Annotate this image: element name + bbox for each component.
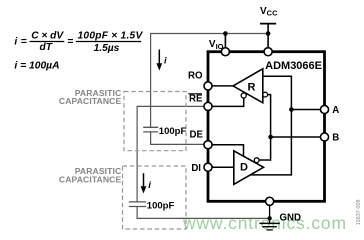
svg-text:VCC: VCC <box>260 6 278 18</box>
svg-text:C × dV: C × dV <box>31 30 64 41</box>
svg-text:RE: RE <box>189 94 203 105</box>
svg-text:100pF: 100pF <box>159 126 187 137</box>
svg-text:DI: DI <box>191 163 201 174</box>
svg-text:100pF: 100pF <box>147 201 175 212</box>
svg-text:D: D <box>240 162 248 174</box>
svg-text:CAPACITANCE: CAPACITANCE <box>59 174 122 184</box>
svg-text:B: B <box>332 133 339 144</box>
svg-text:i = 100µA: i = 100µA <box>14 61 59 72</box>
svg-text:100pF × 1.5V: 100pF × 1.5V <box>77 30 143 41</box>
svg-text:DE: DE <box>190 129 204 140</box>
svg-text:A: A <box>332 105 339 116</box>
svg-text:i: i <box>14 37 17 48</box>
svg-text:i: i <box>148 180 151 191</box>
svg-text:15637-008: 15637-008 <box>356 200 362 226</box>
svg-text:=: = <box>21 37 27 48</box>
svg-text:1.5µs: 1.5µs <box>94 43 120 54</box>
svg-text:=: = <box>67 37 73 48</box>
svg-text:i: i <box>164 55 167 66</box>
svg-text:ADM3066E: ADM3066E <box>265 60 322 72</box>
svg-text:CAPACITANCE: CAPACITANCE <box>59 96 122 106</box>
svg-text:R: R <box>248 82 256 94</box>
svg-text:GND: GND <box>280 213 302 224</box>
svg-text:dT: dT <box>39 42 52 53</box>
svg-text:RO: RO <box>188 70 203 81</box>
